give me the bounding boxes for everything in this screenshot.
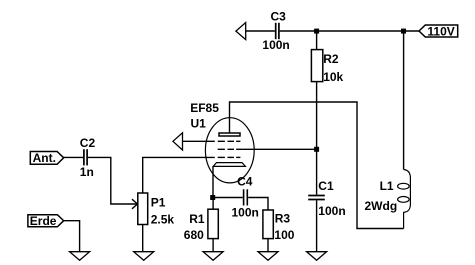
capacitor C3 bbox=[262, 9, 289, 52]
svg-text:C1: C1 bbox=[318, 179, 334, 193]
svg-text:R3: R3 bbox=[275, 212, 291, 226]
ground under P1 bbox=[134, 252, 154, 261]
svg-text:R2: R2 bbox=[323, 52, 339, 66]
wire arrow to C3 left plate bbox=[246, 30, 275, 32]
arrow terminal at g3 bbox=[173, 133, 183, 150]
svg-text:C2: C2 bbox=[80, 136, 96, 150]
svg-text:Ant.: Ant. bbox=[33, 151, 56, 165]
svg-text:1n: 1n bbox=[80, 165, 94, 179]
wire anode routing: anode up, right, down, to L1 bottom bbox=[230, 102, 404, 229]
capacitor C4 bbox=[232, 175, 259, 220]
svg-text:EF85: EF85 bbox=[190, 101, 219, 115]
potentiometer P1 bbox=[138, 193, 175, 227]
svg-text:2Wdg: 2Wdg bbox=[365, 199, 398, 213]
flag Erde bbox=[28, 214, 64, 228]
svg-text:100n: 100n bbox=[318, 204, 345, 218]
node junction top rail / R2 bbox=[314, 29, 319, 34]
wire R2 bottom to screen-grid node (crosses anode wire) bbox=[316, 82, 318, 195]
cathode of U1 bbox=[213, 163, 245, 167]
resistor R1 bbox=[184, 198, 218, 243]
grid g3 dashed (top) bbox=[183, 140, 241, 142]
wire R1 bottom to ground bbox=[212, 239, 214, 252]
svg-text:100n: 100n bbox=[232, 206, 259, 220]
svg-text:Erde: Erde bbox=[30, 214, 57, 228]
ground under Erde bbox=[70, 252, 90, 261]
svg-text:10k: 10k bbox=[323, 70, 343, 84]
wire cathode node to C4 bbox=[213, 197, 243, 199]
svg-text:P1: P1 bbox=[151, 196, 166, 210]
wire C2 to P1 wiper bbox=[88, 157, 137, 204]
wire cathode lead down bbox=[212, 166, 214, 197]
svg-text:100n: 100n bbox=[262, 38, 289, 52]
wire C1 bottom to ground bbox=[316, 200, 318, 251]
svg-text:680: 680 bbox=[184, 228, 204, 242]
ground under R3 bbox=[258, 252, 278, 261]
resistor R3 bbox=[263, 210, 295, 242]
capacitor C2 bbox=[80, 136, 96, 179]
svg-text:C3: C3 bbox=[271, 9, 287, 23]
svg-text:C4: C4 bbox=[237, 175, 253, 189]
svg-text:L1: L1 bbox=[380, 179, 394, 193]
node junction top rail / L1 bbox=[401, 29, 406, 34]
node junction g2 / R2 / C1 bbox=[314, 147, 319, 152]
grid g2 dashed (middle) with lead to right bbox=[218, 148, 317, 150]
flag 110V bbox=[419, 24, 458, 38]
svg-text:R1: R1 bbox=[189, 212, 205, 226]
anode plate of U1 bbox=[219, 133, 240, 136]
wiper arrowhead at P1 bbox=[132, 199, 138, 209]
resistor R2 bbox=[311, 50, 343, 84]
flag Ant. bbox=[30, 151, 63, 165]
wire Erde to ground bbox=[64, 221, 80, 252]
wire P1 bottom to ground bbox=[142, 225, 144, 252]
ground under C1 bbox=[307, 252, 327, 261]
svg-text:2.5k: 2.5k bbox=[151, 213, 175, 227]
inductor L1 bbox=[365, 31, 411, 229]
wire junction to R2 top bbox=[316, 31, 318, 50]
op tube U1 EF85 envelope bbox=[190, 101, 254, 183]
grid g1 dashed (bottom) with lead to P1 bbox=[143, 157, 241, 193]
wire R3 bottom to ground bbox=[267, 239, 269, 252]
svg-text:100: 100 bbox=[274, 228, 294, 242]
wire Ant to C2 bbox=[64, 156, 83, 158]
svg-text:110V: 110V bbox=[427, 24, 454, 38]
arrow terminal (top left, feeds C3) bbox=[236, 23, 246, 40]
wire C4 to R3 top bbox=[248, 198, 268, 211]
svg-text:U1: U1 bbox=[191, 116, 207, 130]
capacitor C1 bbox=[308, 179, 345, 218]
node junction cathode bbox=[210, 195, 215, 200]
ground under R1 bbox=[203, 252, 223, 261]
wire C3 to 110V flag (top supply rail) bbox=[280, 30, 420, 32]
